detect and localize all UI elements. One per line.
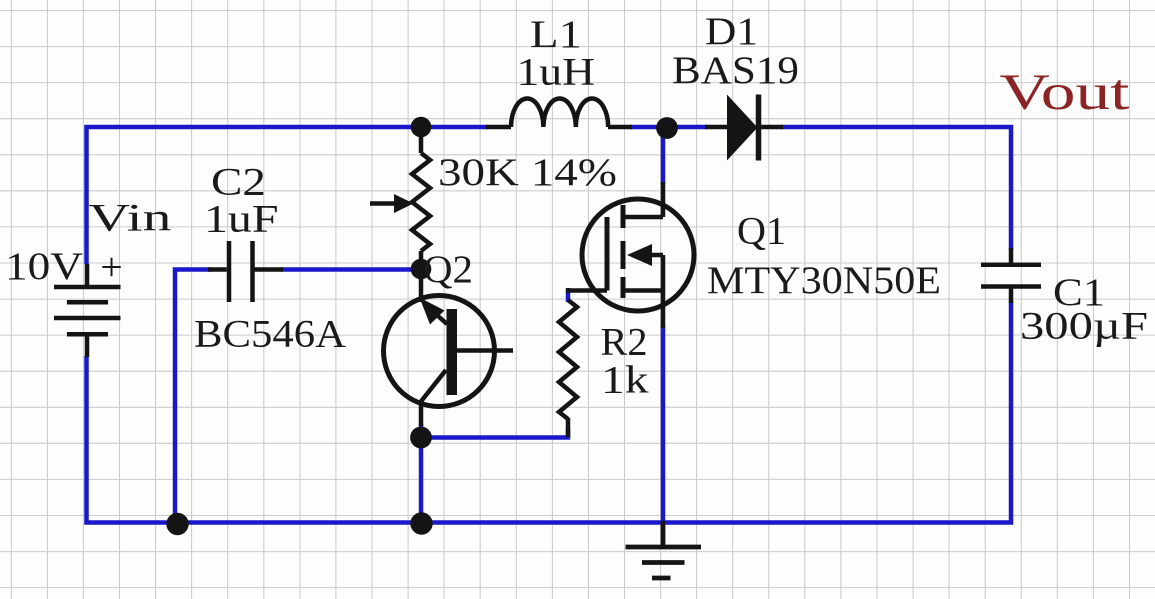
diode D1 leads [705, 125, 783, 130]
potentiometer R1 30K body [370, 133, 430, 263]
svg-text:BC546A: BC546A [194, 312, 347, 356]
transistor Q2 BC546A body [384, 269, 514, 426]
node dot: L1/pot junction [411, 117, 432, 138]
svg-text:10V: 10V [5, 244, 84, 288]
Q1 body-diode arrow [627, 244, 652, 266]
resistor R2 1k body [559, 300, 577, 437]
mosfet Q1 MTY30N50E body [566, 182, 694, 328]
diode D1 anode triangle [727, 95, 758, 161]
svg-text:300µF: 300µF [1020, 304, 1148, 348]
node dot: emitter leg/bottom rail [410, 512, 432, 534]
wire C2 right to node A [281, 267, 421, 272]
node dot: Q2-emitter/R2 junction [410, 427, 432, 449]
wire C2 left leg to bottom rail [175, 270, 212, 523]
wire top rail right: D1 to Vout corner down to C1 [781, 127, 1011, 250]
wire Q2 emitter leg to bottom rail [419, 424, 424, 523]
svg-text:+: + [100, 245, 122, 289]
inductor L1 1uH [486, 98, 632, 127]
node dot: L1/D1/Q1-drain junction [656, 117, 678, 139]
svg-text:MTY30N50E: MTY30N50E [707, 258, 941, 302]
svg-text:1k: 1k [601, 358, 649, 402]
svg-text:1uF: 1uF [204, 197, 279, 241]
potentiometer wiper arrow [394, 194, 414, 213]
wire Q1 gate to R2 top [566, 288, 571, 302]
svg-text:30K 14%: 30K 14% [438, 150, 617, 194]
wire bottom rail: C1 bottom to ground rail up to battery minus [87, 302, 1012, 523]
wire Q1 source to bottom rail [661, 326, 666, 523]
battery V1 Vin 10V [54, 264, 121, 357]
wire top rail left: battery to L1 [87, 127, 489, 264]
svg-text:Q2: Q2 [423, 247, 473, 291]
svg-text:Q1: Q1 [737, 209, 786, 253]
node dot: C2 leg/bottom rail [166, 513, 188, 535]
svg-text:BAS19: BAS19 [672, 48, 799, 92]
svg-text:1uH: 1uH [517, 50, 596, 94]
svg-text:Vout: Vout [1000, 64, 1130, 120]
capacitor C1 300uF [981, 248, 1041, 303]
Q2 base bar [447, 309, 458, 395]
capacitor C2 1uF [208, 241, 283, 302]
svg-text:Vin: Vin [89, 196, 172, 240]
ground symbol [626, 521, 702, 578]
node dot: C2/pot/Q2-collector junction [411, 259, 432, 280]
wire Q1 drain to D1 node [661, 128, 666, 184]
wire top rail: L1 to D1 [630, 125, 707, 130]
diode D1 cathode bar [756, 95, 762, 161]
svg-text:D1: D1 [705, 9, 758, 53]
wire R2 bottom to emitter node [421, 429, 568, 438]
Q2 collector arrowhead [420, 298, 445, 325]
